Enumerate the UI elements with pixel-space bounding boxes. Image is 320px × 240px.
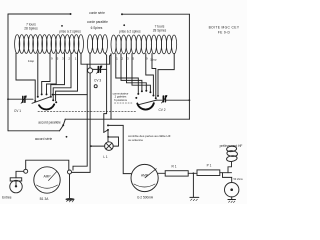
wire S1 output to v1 [53, 94, 87, 96]
resistor R1 [165, 171, 188, 176]
terminal B1 left [24, 169, 28, 173]
svg-text:R 1: R 1 [172, 164, 177, 168]
svg-text:L 1: L 1 [103, 155, 108, 159]
svg-text:accord parallèle: accord parallèle [38, 120, 61, 124]
node ground junction [193, 172, 195, 174]
ground under R1 P1 [192, 173, 194, 197]
wire CV1 to wiper [26, 98, 33, 100]
wire right edge [188, 14, 190, 119]
svg-text:corde série: corde série [89, 11, 105, 15]
switch accord serie arm [60, 126, 64, 131]
rotary switch S2 wiper [138, 100, 157, 105]
wire L3 right end [158, 54, 174, 95]
wire v1 bus down to meter B1 [73, 64, 87, 170]
node lamp switch contact b [107, 129, 109, 131]
rotary switch S1 track arc [39, 104, 54, 109]
node lamp left junction [90, 145, 92, 147]
wire L1 left end to switch S1 [16, 53, 35, 100]
wire right coil left end down to rail [110, 54, 112, 120]
wire L1 tap 1 [56, 53, 78, 101]
wire G2 to R1 [158, 172, 165, 174]
wire left edge [7, 14, 9, 131]
svg-text:ou antenne: ou antenne [128, 138, 143, 142]
svg-text:prélèvement HF: prélèvement HF [220, 144, 243, 148]
wire bottom left [8, 130, 60, 132]
node S1 output contact [52, 94, 54, 96]
capacitor CV2 wire left [157, 99, 162, 101]
wire L3 tap 3 [127, 54, 147, 90]
node accord parallele contact [62, 124, 64, 126]
potentiometer P1 [197, 170, 220, 176]
wire top right segment [122, 13, 189, 15]
capacitor CV1 [21, 96, 26, 104]
wire L3 tap 11sp [152, 54, 156, 98]
wire top left segment [8, 13, 71, 15]
svg-text:CV 2: CV 2 [158, 108, 165, 112]
rotary switch S2 contacts [135, 90, 159, 100]
coax socket [223, 173, 232, 183]
inductor L3 right coil 28 spires [111, 35, 177, 54]
rotary switch S1 contacts [34, 93, 57, 103]
wire L1 tap 3 [51, 53, 65, 96]
switch lamp shorting arm [104, 130, 108, 133]
svg-text:50 ohms: 50 ohms [234, 178, 244, 181]
svg-text:6 positions: 6 positions [114, 98, 128, 102]
node lamp top junction [107, 136, 109, 138]
svg-text:accord série: accord série [35, 137, 53, 141]
svg-text:28 Spires: 28 Spires [24, 26, 38, 30]
svg-text:prise à 2 spires: prise à 2 spires [59, 30, 81, 34]
jack douille J1 [88, 68, 93, 73]
rotary switch S1 wiper [32, 97, 51, 104]
capacitor CV1 wire [8, 98, 22, 100]
wire L3 tap 9 [146, 54, 154, 95]
wire series bus left coil end to right coil start [81, 53, 111, 64]
terminal B1 right [68, 170, 72, 174]
wire L1 tap 5 [47, 53, 57, 93]
wire L1 tap 11sp [37, 53, 39, 96]
svg-text:G 2 500mA: G 2 500mA [137, 195, 154, 199]
wire P1 out [220, 172, 232, 174]
wire CV2 to right edge [166, 99, 189, 101]
node lamp switch contact a [107, 124, 109, 126]
jack douille J2 [94, 85, 97, 88]
ground masse B1 [69, 174, 71, 198]
wire lamp bypass to meter G2 [108, 125, 131, 173]
meter B1 ammeter [34, 167, 60, 193]
wire bottom rail [65, 118, 189, 120]
wire L1 tap 2 [53, 53, 71, 99]
wire CV3 to mid vertical [101, 68, 106, 70]
svg-text:AMP: AMP [44, 175, 51, 179]
svg-text:BOITE MGC CEY: BOITE MGC CEY [209, 26, 240, 30]
wire v2 jack down to meter B1 [72, 73, 90, 172]
wire lamp shunt loop [108, 137, 118, 146]
wire L3 tap 1 [116, 54, 139, 93]
pickup coil helix [226, 146, 238, 173]
wire L3 tap 2 [121, 54, 142, 91]
inductor L2 middle coil 6 spires [87, 35, 107, 54]
svg-text:AMP: AMP [141, 173, 148, 177]
svg-text:6 Spires: 6 Spires [91, 26, 103, 30]
svg-text:Entrée: Entrée [2, 195, 12, 199]
wire lamp right [113, 145, 118, 147]
svg-text:FE 9-D: FE 9-D [218, 30, 231, 34]
node corde serie left dot [70, 13, 72, 15]
wire accord common [63, 119, 65, 125]
svg-text:CV 1: CV 1 [14, 109, 21, 113]
dashed link under commutateur label [115, 102, 133, 104]
meter G2 milliammeter [131, 164, 158, 191]
svg-text:CV 3: CV 3 [94, 79, 101, 83]
node CV1 left junction [7, 98, 9, 100]
wire entree to B1 [16, 171, 24, 178]
capacitor CV3 [97, 66, 102, 74]
ground under coax [231, 197, 233, 199]
node accord serie contact [66, 136, 68, 138]
svg-text:11sp: 11sp [150, 58, 157, 62]
wire middle coil left end through jack [89, 53, 91, 68]
wire L3 tap 5 [132, 54, 150, 92]
svg-text:B1 3A: B1 3A [40, 197, 50, 201]
svg-text:P 1: P 1 [207, 163, 212, 167]
inductor L1 left coil 28 spires [15, 35, 84, 54]
wire B1 arch [26, 160, 69, 170]
node CV2 right junction [189, 99, 191, 101]
node corde serie right dot [121, 13, 123, 15]
lamp L1 [105, 142, 114, 151]
wire R1 to P1 [188, 172, 197, 174]
svg-text:11sp: 11sp [28, 59, 35, 63]
wire lamp left to v2 [91, 145, 105, 147]
rotary switch S2 track arc [137, 103, 154, 109]
wire L1 tap 9 [42, 53, 50, 93]
wire lamp feed [107, 130, 109, 142]
wire middle coil right end down [104, 53, 107, 132]
jack entree [10, 178, 22, 193]
capacitor CV3 wire left [93, 68, 98, 70]
svg-text:corde parallèle: corde parallèle [87, 20, 108, 24]
capacitor CV2 [162, 96, 167, 104]
dashed mechanical link S1-S2 [38, 111, 136, 113]
svg-text:28 Spires: 28 Spires [153, 28, 167, 32]
svg-text:prise à 2 spires: prise à 2 spires [119, 30, 141, 34]
